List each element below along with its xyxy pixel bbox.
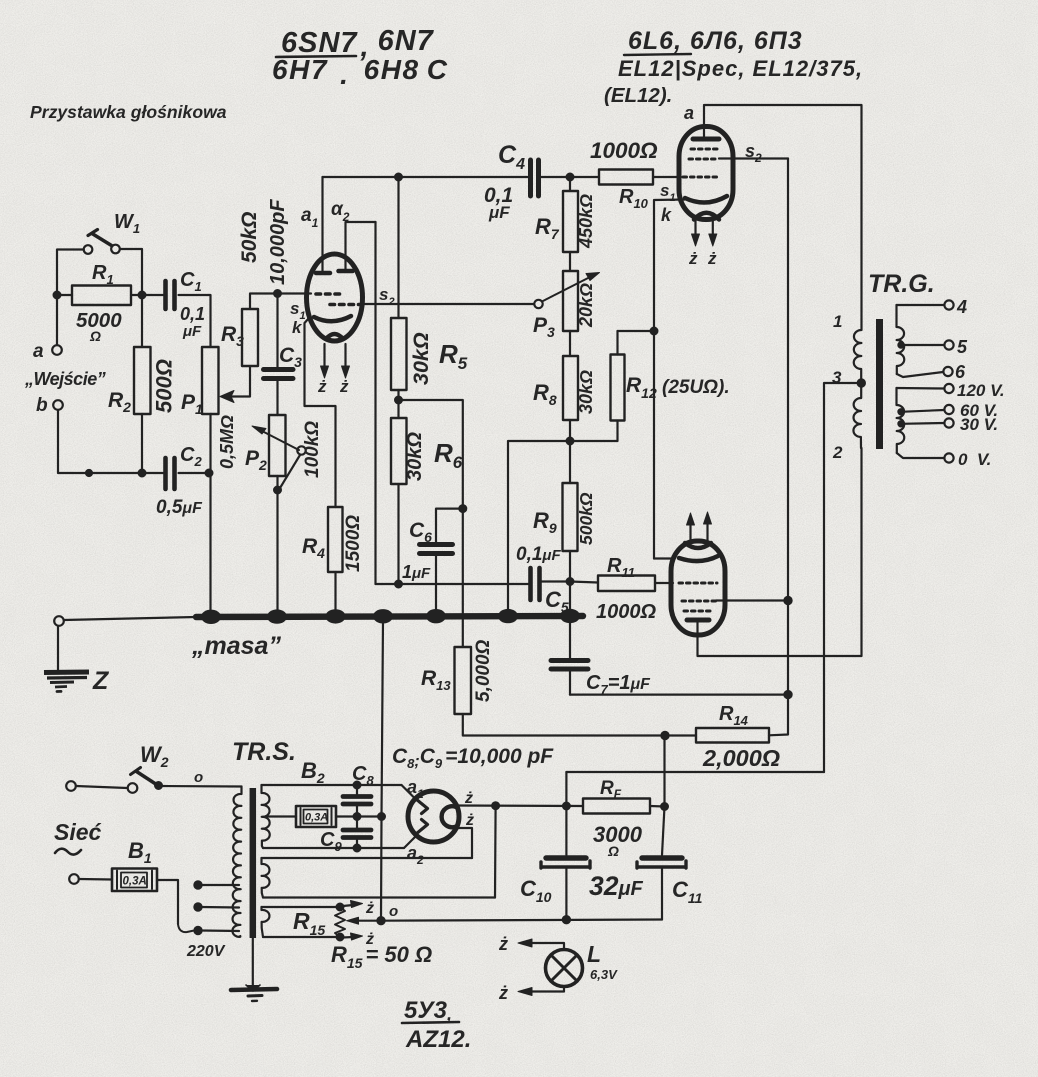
mains tilde bbox=[55, 849, 81, 855]
wire P1 wiper from R3 bottom bbox=[231, 366, 250, 397]
wire plate supply top (y=177) from a1 corner to C4 bbox=[323, 176, 530, 178]
P1 wiper arrowhead bbox=[220, 391, 234, 403]
resistor R5 bbox=[391, 318, 468, 390]
svg-text:Sieć: Sieć bbox=[54, 819, 102, 845]
junction C8 top bbox=[354, 782, 361, 789]
wire node A to terminal a bbox=[56, 295, 58, 345]
wire C1 to P1 top bbox=[179, 295, 211, 347]
fuse B1 bbox=[69, 838, 157, 891]
bus junction dot C6 bbox=[426, 609, 446, 623]
wire R12 top to cathode k line bbox=[618, 330, 655, 332]
svg-text:(25UΩ).: (25UΩ). bbox=[662, 377, 730, 398]
bus junction dot P2 bbox=[267, 609, 287, 623]
wire R4 bottom to masa bus bbox=[334, 572, 336, 613]
svg-text:a: a bbox=[33, 341, 44, 362]
potentiometer P1 bbox=[181, 347, 237, 469]
svg-text:20kΩ: 20kΩ bbox=[576, 283, 596, 328]
chassis ground symbol under TRS bbox=[231, 985, 277, 1001]
wire R3 top to grid s1 bbox=[250, 294, 311, 310]
capacitor C7 bbox=[551, 616, 651, 697]
wire R5 top lead bbox=[397, 177, 399, 318]
V2 cathode lead to k line bbox=[654, 200, 685, 559]
svg-text:0 V.: 0 V. bbox=[958, 450, 991, 469]
svg-text:5,000Ω: 5,000Ω bbox=[473, 639, 494, 702]
junction C6 top branch bbox=[459, 505, 466, 512]
wire node A to R1 bbox=[57, 294, 72, 296]
V4 filament output wire (B+) bbox=[456, 804, 583, 807]
B+ wire to TRG tap3 bbox=[566, 771, 824, 773]
terminal 5 bbox=[944, 340, 953, 349]
capacitor C6 bbox=[402, 509, 463, 582]
R15 wiper arrow from ground bbox=[358, 920, 378, 922]
V1 anode a2 lead bbox=[346, 222, 376, 269]
wire R6 bottom to cathode feedback line bbox=[397, 484, 399, 584]
wire W1 right to junction bbox=[120, 249, 142, 295]
wire R9 bottom to node bbox=[569, 551, 571, 613]
svg-text:500Ω: 500Ω bbox=[152, 359, 177, 413]
terminal 30V bbox=[944, 418, 953, 427]
svg-text:Ω: Ω bbox=[89, 328, 101, 344]
junction R7 top bbox=[567, 174, 574, 181]
wire HV top to C8/a1 bbox=[262, 784, 402, 786]
junction ground line / fuse row bbox=[378, 813, 385, 820]
terminal 0V bbox=[944, 453, 953, 462]
svg-text:ż: ż bbox=[465, 812, 474, 829]
capacitor C5 bbox=[516, 544, 569, 615]
hum balance R15 bbox=[293, 904, 345, 941]
resistor R9 bbox=[533, 483, 596, 551]
svg-text:0,5MΩ: 0,5MΩ bbox=[217, 415, 237, 469]
wire R13 bottom to R14 rail bbox=[463, 714, 696, 736]
V1 anode a2 plate bbox=[339, 269, 353, 274]
wire C5 right to junction bbox=[540, 580, 571, 582]
svg-text:TR.G.: TR.G. bbox=[868, 270, 935, 298]
svg-text:k: k bbox=[292, 318, 303, 337]
bus junction dot ground drop bbox=[373, 609, 393, 623]
junction R2/rail bbox=[139, 470, 146, 477]
svg-text:μF: μF bbox=[488, 203, 510, 222]
svg-text:0,1μF: 0,1μF bbox=[516, 544, 561, 565]
capacitor C3 bbox=[264, 294, 303, 379]
terminal 4 bbox=[944, 300, 953, 309]
svg-text:TR.S.: TR.S. bbox=[232, 738, 296, 766]
masa ground terminal bbox=[54, 616, 64, 626]
pilot lamp L bbox=[518, 939, 618, 996]
svg-text:1500Ω: 1500Ω bbox=[343, 515, 364, 572]
V3 screen dashes bbox=[682, 600, 716, 603]
TRS 5Y3 filament winding bbox=[262, 858, 270, 898]
triode tube V1 envelope bbox=[307, 254, 363, 341]
TRS HV secondary winding bbox=[262, 785, 270, 848]
svg-text:2: 2 bbox=[832, 443, 843, 462]
junction C9 bottom bbox=[354, 845, 361, 852]
R15 bottom arrow to heater z bbox=[343, 936, 353, 939]
svg-text:0,3A: 0,3A bbox=[123, 876, 147, 888]
junction screen line / C7 bbox=[784, 691, 791, 698]
svg-text:5: 5 bbox=[957, 337, 968, 357]
TRS 6.3V heater winding bbox=[262, 907, 270, 937]
TRG secondary winding lower bbox=[897, 388, 905, 453]
V1 anode a1 lead bbox=[321, 177, 323, 271]
wire P2 bottom to masa bus bbox=[276, 476, 278, 613]
wire y584 cathode line to C5 bbox=[376, 583, 530, 585]
resistor R7 bbox=[535, 177, 596, 252]
V2 heater arrow left bbox=[694, 220, 696, 239]
V3 control grid dashes bbox=[679, 582, 717, 585]
bus junction dot C5 branch bbox=[498, 609, 518, 623]
capacitor C8 bbox=[343, 763, 374, 817]
wire heater winding top to R15 bbox=[262, 906, 341, 908]
wire C7 to screen line bbox=[570, 693, 788, 695]
junction on bottom rail bbox=[86, 470, 92, 476]
wire V1 grid s2 to P3 wiper bbox=[362, 303, 534, 305]
TRS primary tap 1 bbox=[194, 881, 201, 888]
wire R14 right up screen line bbox=[769, 695, 788, 736]
svg-text:Ω: Ω bbox=[607, 843, 619, 859]
V2 screen dashes s2 bbox=[691, 148, 717, 151]
bus junction dot R9/C7 bbox=[560, 609, 580, 623]
svg-text:6L6, 6Л6, 6П3: 6L6, 6Л6, 6П3 bbox=[628, 27, 803, 55]
svg-text:6: 6 bbox=[955, 362, 966, 382]
TRS primary winding bbox=[232, 787, 241, 937]
wire junction to R11 bbox=[570, 582, 598, 583]
svg-text:o: o bbox=[194, 769, 203, 786]
filter resistor RF bbox=[583, 778, 650, 859]
svg-text:ż: ż bbox=[365, 900, 374, 917]
TRS primary tap 2 bbox=[194, 903, 201, 910]
wire winding bottom to B+ node bbox=[263, 896, 495, 898]
output tube V3 envelope bbox=[671, 541, 725, 635]
junction R9/C5/R11 bbox=[567, 578, 574, 585]
tap 5 bbox=[898, 342, 903, 347]
rectifier tube V4 (5Y3) bbox=[408, 791, 459, 842]
TRG secondary winding upper bbox=[897, 305, 905, 374]
junction k line / R12 bbox=[651, 328, 658, 335]
svg-text:30 V.: 30 V. bbox=[960, 415, 998, 434]
wire W2 to TRS primary top bbox=[162, 785, 242, 788]
capacitor C2 bbox=[156, 444, 203, 518]
svg-text:1000Ω: 1000Ω bbox=[590, 138, 658, 163]
resistor R14 bbox=[696, 703, 780, 771]
terminal 120V bbox=[944, 384, 953, 393]
bus junction dot R4 bbox=[326, 609, 346, 623]
resistor R1 bbox=[72, 262, 131, 344]
V2 bottom arch bbox=[694, 213, 719, 220]
V3 anode plate bar bbox=[687, 618, 709, 623]
svg-text:30kΩ: 30kΩ bbox=[404, 432, 426, 481]
resistor R4 bbox=[302, 507, 364, 572]
svg-text:EL12|Spec, EL12/375,: EL12|Spec, EL12/375, bbox=[618, 56, 863, 81]
V1 grid s1 dashes bbox=[316, 292, 340, 296]
V1 cathode arc bbox=[314, 316, 351, 321]
wire lower secondary top to terminal 120V bbox=[897, 387, 945, 390]
svg-text:Przystawka głośnikowa: Przystawka głośnikowa bbox=[30, 102, 227, 122]
tap 30V bbox=[898, 421, 903, 426]
svg-text:1000Ω: 1000Ω bbox=[596, 601, 656, 623]
capacitor C1 bbox=[166, 269, 206, 340]
output tube V2 envelope bbox=[679, 127, 733, 220]
resistor R3 bbox=[221, 212, 261, 366]
wire W1 left to node A bbox=[57, 250, 84, 296]
svg-text:„masa”: „masa” bbox=[191, 632, 281, 660]
screen supply line x788 bbox=[787, 159, 789, 695]
svg-text:ż: ż bbox=[498, 934, 508, 954]
TRS core ground lead bbox=[252, 938, 254, 985]
wire HV bottom to C9/a2 bbox=[263, 847, 404, 849]
masa bus (thick) bbox=[196, 616, 583, 617]
potentiometer P3 bbox=[533, 252, 600, 340]
capacitor C4 bbox=[484, 141, 539, 222]
junction C10 bottom bbox=[563, 916, 570, 923]
junction grid wire / C3 bbox=[274, 290, 281, 297]
wire b down to input bottom rail bbox=[58, 410, 164, 473]
V4 filament wire 2 to winding bbox=[454, 828, 473, 858]
wire a2 diagonal into rectifier bbox=[404, 837, 416, 849]
resistor R2 bbox=[108, 347, 177, 415]
junction C2/P1 lead bbox=[206, 470, 213, 477]
HV center tap wire to fuse B2 bbox=[265, 815, 296, 817]
svg-text:450kΩ: 450kΩ bbox=[576, 194, 596, 249]
wire B1 to 220V tap bbox=[157, 880, 178, 924]
junction R8 bottom bbox=[569, 420, 571, 483]
wire a1 diagonal into rectifier bbox=[402, 785, 414, 797]
resistor R10 bbox=[599, 170, 653, 212]
bus junction dot P1 bbox=[201, 610, 221, 624]
ground return wire bottom bbox=[381, 920, 662, 921]
svg-text:k: k bbox=[661, 205, 672, 225]
V2 anode lead to top rail bbox=[704, 105, 862, 320]
svg-text:(EL12).: (EL12). bbox=[604, 84, 672, 107]
svg-text:30kΩ: 30kΩ bbox=[576, 370, 596, 414]
svg-text:ż: ż bbox=[339, 377, 349, 396]
V3 top arch bbox=[685, 543, 711, 548]
ground symbol Z bbox=[44, 626, 110, 695]
junction R5/R6 bbox=[395, 397, 402, 404]
svg-text:ż: ż bbox=[498, 983, 508, 1003]
junction screen line / V3 screen bbox=[784, 597, 791, 604]
svg-text:μF: μF bbox=[182, 323, 202, 340]
switch W2 bbox=[66, 742, 203, 793]
svg-text:b: b bbox=[36, 395, 48, 416]
capacitor C9 bbox=[320, 817, 371, 855]
riser RF to R14 rail bbox=[663, 736, 665, 807]
V2 cathode arc bbox=[685, 196, 727, 203]
fuse B2 bbox=[296, 758, 336, 827]
TRG primary winding 1 bbox=[833, 312, 862, 383]
wire k line into V3 cathode bbox=[654, 557, 673, 559]
junction R14 left / RF riser bbox=[661, 732, 668, 739]
terminal a bbox=[52, 345, 62, 355]
V1 anode a1 plate bbox=[316, 271, 330, 276]
V1 heater arrow right bbox=[344, 344, 346, 371]
svg-text:ż: ż bbox=[707, 249, 717, 268]
svg-text:0,5μF: 0,5μF bbox=[156, 497, 203, 518]
TRS primary tap 3 (220V) bbox=[194, 927, 201, 934]
wire R1 to C1 bbox=[131, 294, 164, 296]
wire winding top to rectifier bbox=[262, 857, 473, 859]
TRG core bbox=[876, 319, 883, 449]
wire R12 bottom to R8 junction bbox=[570, 421, 618, 442]
wire P1 bottom to masa bus bbox=[209, 414, 211, 613]
resistor R11 bbox=[596, 555, 656, 623]
svg-text:ż: ż bbox=[317, 377, 327, 396]
wire a2 drop to cathode line node bbox=[374, 222, 376, 584]
wire terminal to masa bus bbox=[64, 617, 196, 620]
V1 grid s2 dashes bbox=[330, 303, 360, 307]
V1 heater arrow left bbox=[323, 344, 325, 371]
wire R2 bottom to rail bbox=[141, 414, 143, 473]
svg-text:4: 4 bbox=[956, 297, 967, 317]
V3 screen lead right bbox=[716, 599, 788, 601]
resistor R12 bbox=[611, 331, 657, 421]
junction R1/C1/R2 bbox=[139, 292, 146, 299]
junction R6 bottom on y584 wire bbox=[395, 581, 402, 588]
V2 screen lead right bbox=[719, 157, 788, 159]
resistor R6 bbox=[391, 418, 463, 484]
V3 cathode arc bbox=[679, 556, 718, 561]
wire secondary bottom to terminal 6 bbox=[897, 372, 943, 377]
V2 heater arrow right bbox=[712, 219, 714, 239]
wire R11 to V3 grid bbox=[655, 582, 673, 584]
V2 control grid dashes s1 bbox=[683, 176, 717, 179]
svg-text:„Wejście”: „Wejście” bbox=[24, 369, 106, 389]
underline under 6SN7 bbox=[276, 56, 356, 57]
terminal 6 bbox=[943, 367, 952, 376]
V2 anode plate bar bbox=[693, 137, 719, 142]
wire down to 5Y3 winding return bbox=[494, 806, 497, 898]
wire secondary top to terminal 4 bbox=[897, 304, 945, 306]
V4 anode a2 electrode bbox=[416, 820, 428, 835]
svg-text:10,000pF: 10,000pF bbox=[267, 199, 289, 285]
node A junction dot bbox=[54, 292, 61, 299]
junction R5 top bbox=[395, 174, 402, 181]
V3 heater arrow left (up) bbox=[689, 521, 691, 542]
svg-text:3: 3 bbox=[832, 368, 842, 387]
terminal 60V bbox=[944, 405, 953, 414]
svg-text:50kΩ: 50kΩ bbox=[238, 212, 261, 263]
svg-text:L: L bbox=[587, 941, 601, 967]
svg-text:a: a bbox=[684, 103, 694, 123]
potentiometer P2 bbox=[245, 381, 323, 493]
terminal b bbox=[53, 400, 63, 410]
underline under 6L6 bbox=[624, 54, 691, 55]
wire V1 cathode to R4 bbox=[305, 318, 336, 507]
wire C6 bottom to masa bus bbox=[435, 556, 437, 613]
svg-text:6,3V: 6,3V bbox=[590, 967, 618, 982]
svg-text:1μF: 1μF bbox=[402, 562, 431, 582]
svg-text:30kΩ: 30kΩ bbox=[409, 332, 433, 385]
wire R5/R6 junction to C6 branch bbox=[399, 400, 463, 647]
junction C8/C9 midpoint bbox=[354, 813, 361, 820]
resistor R13 bbox=[421, 639, 494, 714]
resistor R8 bbox=[533, 331, 596, 420]
svg-text:R15= 50 Ω: R15= 50 Ω bbox=[331, 942, 432, 971]
TRS core bbox=[250, 788, 257, 938]
V3 heater arrow right (up) bbox=[706, 520, 708, 541]
V4 filament loop bbox=[442, 806, 456, 827]
svg-text:Z: Z bbox=[92, 667, 110, 695]
R15 top arrow to heater z bbox=[343, 905, 353, 906]
V1 bottom arch bbox=[326, 334, 343, 339]
underline 5Y3 bbox=[402, 1022, 459, 1023]
svg-text:AZ12.: AZ12. bbox=[405, 1026, 471, 1053]
junction ground line bottom bbox=[377, 917, 384, 924]
ground drop line from masa bus bbox=[381, 620, 383, 921]
svg-text:100kΩ: 100kΩ bbox=[302, 421, 323, 478]
wire C4 to R10 bbox=[540, 176, 600, 178]
wire C2 to P1 bottom lead bbox=[179, 472, 210, 474]
svg-text:1: 1 bbox=[833, 312, 842, 331]
switch W1 bbox=[84, 211, 140, 254]
wire lower secondary bottom to terminal 0V bbox=[897, 453, 944, 458]
TRG primary winding 2 bbox=[832, 383, 861, 462]
wire B2 to ground line bbox=[336, 815, 382, 817]
svg-text:0,3A: 0,3A bbox=[305, 812, 328, 824]
V3 anode lead down to TRG winding 2 bbox=[698, 448, 862, 656]
wire R10 to V2 grid bbox=[653, 176, 681, 178]
filter cap C10 bbox=[520, 772, 590, 920]
svg-text:o: o bbox=[389, 903, 398, 920]
junction RF right / riser / C11 bbox=[661, 803, 668, 810]
svg-text:120 V.: 120 V. bbox=[957, 381, 1005, 400]
junction filament/ winding return bbox=[492, 802, 499, 809]
svg-text:0,1: 0,1 bbox=[180, 304, 205, 324]
svg-text:220V: 220V bbox=[186, 943, 226, 960]
wire R8 junction to C5 branch bbox=[508, 441, 570, 613]
wire heater winding bottom to R15 bbox=[263, 936, 340, 938]
wire tap3 to B+ line bbox=[824, 383, 861, 772]
V4 anode a1 electrode bbox=[416, 799, 428, 814]
svg-text:5У3,: 5У3, bbox=[404, 997, 452, 1024]
wire R2 top bbox=[141, 295, 143, 347]
svg-text:ż: ż bbox=[688, 249, 698, 268]
tap 60V bbox=[898, 409, 903, 414]
junction tap 3 bbox=[858, 379, 865, 386]
svg-text:500kΩ: 500kΩ bbox=[576, 492, 596, 545]
svg-text:2,000Ω: 2,000Ω bbox=[702, 745, 780, 771]
filter cap C11 bbox=[637, 807, 703, 920]
